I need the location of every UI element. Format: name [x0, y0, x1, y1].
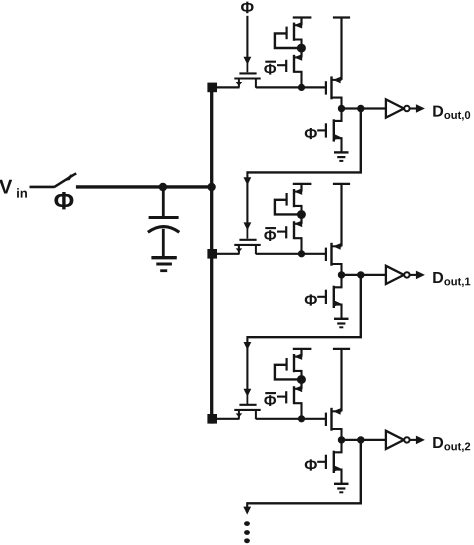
ground, stage 0: [334, 151, 349, 153]
inverter U1 (output buffer), stage 1: [386, 266, 404, 284]
arrowhead (lower) on feedback line: [244, 222, 252, 230]
label phi-bar (latch clock), stage 2: [264, 395, 276, 406]
power rail bar (VDD T), stage 1: [333, 183, 350, 185]
transistor M1 (sampling pass NMOS), stage 2: [239, 404, 256, 406]
node: latch input junction, stage 2: [298, 415, 305, 422]
arrowhead on continuation line: [243, 507, 251, 515]
node: bus tap (square) stage 2: [207, 414, 217, 424]
node: capacitor tap junction: [159, 183, 167, 191]
wire: output node to inverter, stage 1: [342, 274, 386, 276]
node: bus tap (square) stage 1: [207, 249, 217, 259]
label Dout,0: [433, 106, 443, 117]
node: latch internal node, stage 0: [297, 44, 306, 53]
arrowhead (upper) on feedback line: [244, 342, 252, 350]
transistor M2 (latch top, diode-connected), stage 1: [300, 184, 302, 192]
output arrowhead, stage 0: [416, 104, 425, 113]
label phi (reset clock), stage 1: [305, 294, 317, 305]
node: input bus junction: [207, 183, 215, 191]
wire: clock line to sampling gate (stage 0): [246, 16, 248, 58]
transistor M3 (latch bottom, phi-bar gated), stage 2: [300, 380, 302, 389]
transistor M4 (output driver), stage 1: [332, 245, 342, 247]
wire: bus tap to sampling transistor source, stage 1: [216, 253, 240, 255]
transistor M5 (phi-gated pulldown), stage 2: [334, 440, 341, 452]
output arrowhead, stage 1: [416, 271, 425, 280]
output arrowhead, stage 2: [416, 436, 425, 445]
transistor M3 (latch bottom, phi-bar gated), stage 1: [300, 215, 302, 224]
node: output node, stage 1: [338, 271, 345, 278]
wire: switch to sampling node: [76, 185, 213, 188]
inverter U0 (output buffer), stage 0: [386, 99, 404, 117]
arrowhead (upper) on feedback line: [244, 177, 252, 185]
node: output node, stage 0: [338, 105, 345, 112]
label Vin: [0, 180, 12, 194]
label phi-bar (latch clock), stage 0: [264, 64, 276, 75]
node: latch input junction, stage 0: [298, 84, 305, 91]
arrowhead on clock line: [244, 57, 252, 65]
wire: output node to inverter, stage 0: [342, 107, 386, 109]
transistor M1 (sampling pass NMOS), stage 1: [239, 239, 256, 241]
node: bus tap (square) stage 0: [207, 83, 217, 93]
transistor M4 (output driver), stage 2: [332, 410, 342, 412]
label Dout,2: [433, 437, 443, 448]
wire: feedback to next stage (continuation): [247, 440, 361, 503]
power rail bar (latch), stage 0: [293, 16, 312, 18]
transistor M4 (output driver), stage 0: [332, 79, 342, 81]
node: latch internal node, stage 2: [297, 375, 306, 384]
power rail bar (latch), stage 1: [293, 183, 312, 185]
wire: feedback from stage 1 output to stage 2 sampling gate: [247, 275, 361, 337]
arrowhead (lower) on feedback line: [244, 389, 252, 397]
wire: bus tap to sampling transistor source, stage 2: [216, 418, 240, 420]
label phi (top clock): [241, 2, 254, 14]
transistor M1 (sampling pass NMOS), stage 0: [239, 72, 256, 74]
transistor M5 (phi-gated pulldown), stage 0: [334, 109, 341, 121]
power rail bar (VDD T), stage 0: [333, 16, 350, 18]
node: output node, stage 2: [338, 436, 345, 443]
power rail bar (VDD T), stage 2: [333, 348, 350, 350]
ground, stage 1: [334, 318, 349, 320]
transistor M2 (latch top, diode-connected), stage 2: [300, 349, 302, 357]
label phi (reset clock), stage 2: [305, 459, 317, 470]
node: latch internal node, stage 1: [297, 210, 306, 219]
bus wire (vertical input rail): [210, 83, 213, 423]
wire: sampling drain to latch input, stage 1: [256, 253, 325, 255]
transistor M3 (latch bottom, phi-bar gated), stage 0: [300, 48, 302, 57]
ground, stage 2: [334, 483, 349, 485]
wire: sampling drain to latch input, stage 2: [256, 418, 325, 420]
power rail bar (latch), stage 2: [293, 348, 312, 350]
node: feedback tap, stage 0: [357, 105, 364, 112]
label phi (reset clock), stage 0: [305, 128, 317, 139]
label Dout,1: [433, 272, 443, 283]
wire: Vin to switch: [30, 186, 55, 189]
wire: output node to inverter, stage 2: [342, 439, 386, 441]
wire: bus tap to sampling transistor source, stage 0: [216, 86, 240, 88]
transistor M2 (latch top, diode-connected), stage 0: [300, 18, 302, 26]
transistor M5 (phi-gated pulldown), stage 1: [334, 275, 341, 287]
label phi (switch clock): [54, 192, 73, 209]
capacitor C1 (sampling cap): [162, 188, 165, 216]
ellipsis dots (more stages): [244, 521, 250, 526]
ground (below C1): [151, 256, 176, 259]
wire: sampling drain to latch input, stage 0: [256, 86, 325, 88]
node: feedback tap, stage 2: [357, 436, 364, 443]
node: latch input junction, stage 1: [298, 250, 305, 257]
wire: feedback from stage 0 output to stage 1 sampling gate: [247, 109, 361, 173]
label phi-bar (latch clock), stage 1: [264, 230, 276, 241]
switch S1 (sampling switch, phi): [54, 174, 74, 187]
node: feedback tap, stage 1: [357, 271, 364, 278]
inverter U2 (output buffer), stage 2: [386, 431, 404, 449]
